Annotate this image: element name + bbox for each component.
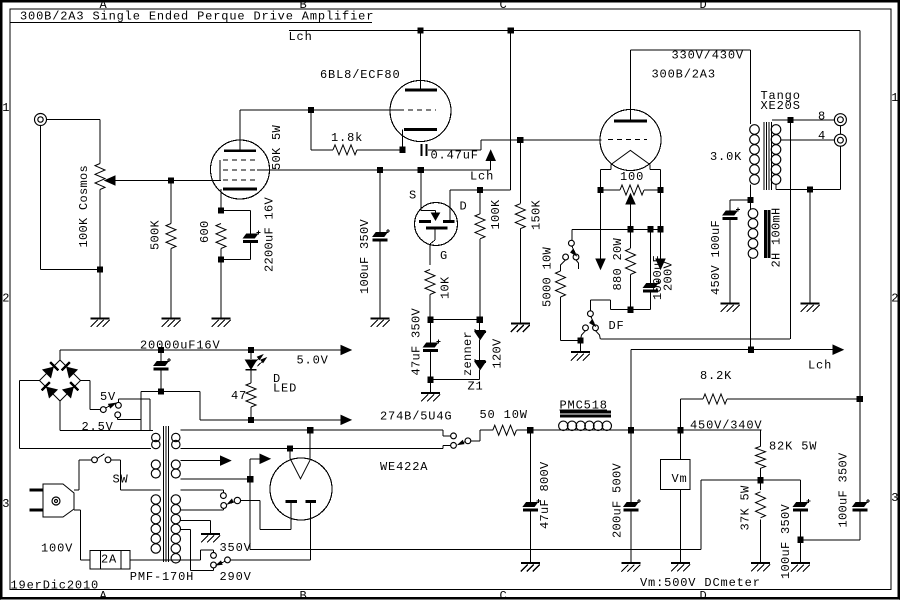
- svg-text:47uF 350V: 47uF 350V: [410, 307, 424, 375]
- svg-text:880 20W: 880 20W: [611, 237, 625, 290]
- svg-text:150K: 150K: [530, 199, 544, 230]
- svg-text:1: 1: [891, 91, 899, 105]
- svg-text:450V 100uF: 450V 100uF: [709, 220, 723, 295]
- svg-text:2H 100mH: 2H 100mH: [770, 207, 784, 267]
- svg-text:5V: 5V: [100, 390, 116, 404]
- svg-text:3.0K: 3.0K: [710, 150, 742, 164]
- svg-text:20000uF16V: 20000uF16V: [140, 339, 221, 353]
- svg-text:274B/5U4G: 274B/5U4G: [380, 410, 452, 424]
- svg-text:120V: 120V: [491, 338, 505, 369]
- svg-text:LED: LED: [273, 382, 297, 396]
- svg-text:C: C: [500, 589, 508, 600]
- svg-text:5.0V: 5.0V: [297, 354, 329, 368]
- svg-text:100: 100: [620, 170, 644, 184]
- svg-text:WE422A: WE422A: [380, 460, 428, 474]
- svg-text:1: 1: [2, 101, 10, 115]
- svg-text:2: 2: [2, 292, 10, 306]
- svg-text:3: 3: [891, 491, 899, 505]
- svg-text:zenner: zenner: [461, 331, 475, 376]
- svg-text:D: D: [700, 0, 708, 12]
- svg-text:2A: 2A: [101, 553, 117, 567]
- svg-text:330V/430V: 330V/430V: [672, 49, 744, 63]
- svg-text:0.47uF: 0.47uF: [431, 149, 479, 163]
- svg-text:2.5V: 2.5V: [82, 420, 114, 434]
- svg-text:D: D: [700, 589, 708, 600]
- svg-text:100uF 350V: 100uF 350V: [779, 503, 793, 579]
- svg-text:50 10W: 50 10W: [480, 408, 528, 422]
- svg-text:3: 3: [2, 497, 10, 511]
- svg-text:100uF 350V: 100uF 350V: [358, 218, 372, 294]
- svg-text:1.8k: 1.8k: [331, 131, 363, 145]
- svg-text:450V/340V: 450V/340V: [690, 419, 762, 433]
- svg-text:19erDic2010: 19erDic2010: [11, 579, 100, 593]
- svg-text:100K Cosmos: 100K Cosmos: [77, 165, 91, 248]
- svg-text:500K: 500K: [149, 219, 163, 250]
- svg-text:SW: SW: [113, 473, 129, 487]
- svg-text:37K 5W: 37K 5W: [739, 485, 753, 531]
- svg-text:B: B: [300, 589, 308, 600]
- svg-text:D: D: [460, 200, 468, 214]
- svg-text:6BL8/ECF80: 6BL8/ECF80: [320, 68, 401, 82]
- svg-text:8: 8: [818, 110, 826, 124]
- svg-text:8.2K: 8.2K: [700, 369, 732, 383]
- svg-text:100uF 350V: 100uF 350V: [837, 452, 851, 528]
- svg-text:50K 5W: 50K 5W: [270, 124, 284, 170]
- svg-text:DF: DF: [609, 319, 625, 333]
- svg-text:300B/2A3 Single Ended Perque D: 300B/2A3 Single Ended Perque Drive Ampli…: [20, 10, 374, 24]
- svg-text:100K: 100K: [489, 199, 503, 230]
- svg-text:G: G: [440, 249, 448, 263]
- svg-text:5000 10W: 5000 10W: [541, 246, 555, 307]
- svg-text:82K 5W: 82K 5W: [769, 440, 817, 454]
- svg-text:200V: 200V: [662, 260, 676, 291]
- svg-text:Vm: Vm: [672, 472, 688, 486]
- svg-text:10K: 10K: [439, 276, 453, 299]
- svg-text:Lch: Lch: [808, 359, 832, 373]
- svg-text:XE20S: XE20S: [761, 99, 801, 113]
- svg-text:PMC518: PMC518: [560, 399, 608, 413]
- svg-text:C: C: [500, 0, 508, 12]
- svg-text:Lch: Lch: [470, 170, 494, 184]
- svg-text:350V: 350V: [220, 541, 252, 555]
- svg-text:200uF 500V: 200uF 500V: [611, 462, 625, 538]
- svg-text:4: 4: [818, 129, 826, 143]
- svg-text:300B/2A3: 300B/2A3: [652, 68, 716, 82]
- svg-text:Vm:500V DCmeter: Vm:500V DCmeter: [640, 576, 761, 590]
- svg-text:290V: 290V: [220, 570, 252, 584]
- svg-text:Z1: Z1: [468, 380, 484, 394]
- svg-text:100V: 100V: [41, 542, 73, 556]
- svg-text:47uF 800V: 47uF 800V: [538, 461, 552, 529]
- svg-text:S: S: [409, 189, 417, 203]
- svg-text:2200uF 16V: 2200uF 16V: [263, 196, 277, 272]
- svg-text:2: 2: [891, 292, 899, 306]
- svg-text:A: A: [100, 589, 108, 600]
- svg-text:47: 47: [231, 389, 247, 403]
- svg-text:Lch: Lch: [289, 30, 313, 44]
- svg-text:PMF-170H: PMF-170H: [130, 570, 194, 584]
- svg-text:600: 600: [198, 220, 212, 243]
